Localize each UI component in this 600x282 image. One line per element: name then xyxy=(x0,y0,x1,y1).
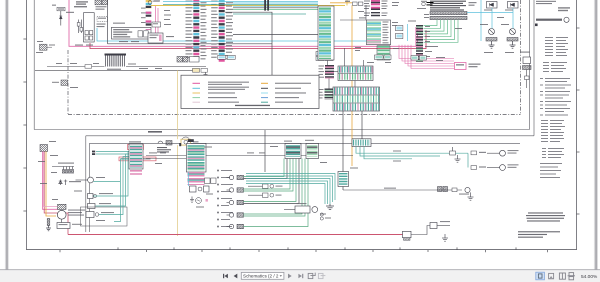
fan motor M2 xyxy=(76,177,121,183)
legend row: gauge circuit (light cyan) xyxy=(261,92,306,93)
wire: cyan interconnect at flashers xyxy=(467,0,513,41)
page left shadow edge xyxy=(5,0,9,270)
wire: teal feeds to lamps right xyxy=(356,147,468,159)
legend box xyxy=(181,75,319,108)
connector P2 (hatched) xyxy=(61,80,68,85)
ground G1 xyxy=(489,41,495,48)
connector strip CN-C (fuse column) xyxy=(146,0,152,30)
toolbar background xyxy=(0,270,600,282)
label: starter motor text xyxy=(68,210,85,216)
right margin: sheet reference text xyxy=(536,1,570,11)
in-line relay chain at right border xyxy=(520,52,531,89)
horn H2 (circle) xyxy=(510,29,516,35)
wire: green risers from lamp rows xyxy=(244,159,309,227)
label: relay cluster text xyxy=(74,1,94,15)
sheet frame bottom border with ticks xyxy=(27,247,577,252)
connector P4 (hatched) xyxy=(486,38,497,42)
wire: pink battery lead xyxy=(43,152,58,210)
relay K3 dashed label box xyxy=(97,17,107,22)
label: splice comb value xyxy=(107,69,121,71)
ground G5 (bundle ground) xyxy=(326,204,334,210)
sensor group under CN-B2 xyxy=(190,186,210,192)
circuit breaker CB1 xyxy=(248,184,283,188)
connector boxes CN-R1 xyxy=(375,55,392,60)
label: bus code xyxy=(384,188,396,189)
ground G2 xyxy=(510,41,516,48)
junction bank JB1 (striped) xyxy=(338,66,373,81)
legend row: air-con circuit (teal) xyxy=(261,102,303,103)
work lamp circuit 2: breaker + lamp xyxy=(471,164,519,170)
connector strip CN-H (panel side) xyxy=(318,6,334,60)
wire: teal feeds from border to CN-B1 xyxy=(96,152,129,155)
ground G6 xyxy=(455,155,461,162)
legend row: key switch circuit (cyan) xyxy=(193,87,250,90)
splice S2 on bus xyxy=(264,0,269,11)
switch SW2 small box xyxy=(152,22,161,27)
ground G4 xyxy=(190,197,194,203)
toolbar: next-page button xyxy=(288,274,292,279)
connector P5 (hatched) xyxy=(507,38,518,42)
wire: dark run under relay cluster xyxy=(108,43,273,45)
wire: pink stubs into strip xyxy=(415,27,417,46)
fuse row F2 on orange bus xyxy=(345,1,363,6)
wire: yellow riser at junction xyxy=(346,0,348,6)
label: red box long xyxy=(119,157,156,161)
svg-text:Schematics (2 / 2: Schematics (2 / 2 xyxy=(243,274,279,279)
legend row: lighting circuit (orange) xyxy=(261,83,311,84)
connector P3 (hatched pair at top) xyxy=(95,0,108,5)
legend row: charging circuit (green) xyxy=(193,97,238,98)
wire: orange accessory lead xyxy=(46,152,56,217)
splice comb SP1 xyxy=(105,54,207,67)
legend row: ground circuit (dark) xyxy=(261,88,301,89)
fuse F3 on teal feed xyxy=(450,147,456,155)
beacon circuit: connector + breaker + lamp xyxy=(438,187,471,195)
label: microtext lower mid xyxy=(149,140,358,219)
safety relay RY2 xyxy=(88,203,112,209)
junction bank JB2 (striped, large) xyxy=(333,87,380,111)
lamp unit L1 (pink box) xyxy=(455,63,481,70)
ECU connector grid CN-L xyxy=(430,1,477,20)
lamp row 2 with connector xyxy=(227,188,244,192)
connector strip CN-J1 xyxy=(364,0,388,10)
alternator box (yellow) xyxy=(179,137,198,146)
wire: pink sensor stub xyxy=(206,199,208,202)
starter relay box xyxy=(57,223,70,229)
fusible link FL3 xyxy=(403,231,412,240)
legend row: start aid circuit (blue) xyxy=(261,97,299,98)
wire: strip links xyxy=(328,61,339,95)
legend title: (A) CHASSIS HARNESS xyxy=(235,105,270,106)
wire: bus to splice comb xyxy=(47,66,105,68)
legend row: starting circuit (yellow) xyxy=(193,92,236,93)
starter motor M1 xyxy=(57,204,66,222)
connector P7 (hatched, battery feed) xyxy=(40,145,48,152)
label: instrument panel text rows xyxy=(113,29,132,38)
label: zener text xyxy=(69,181,81,182)
label: wire codes on teal feeds xyxy=(393,151,401,162)
wire: link JB1 to JB2 xyxy=(354,81,356,88)
toolbar: next-view icon (disabled) xyxy=(318,273,325,278)
toolbar: previous-page button xyxy=(234,274,238,279)
wire bus: cab-to-panel harness lines xyxy=(163,1,318,14)
connector strip CN-E with pin labels xyxy=(211,0,233,62)
circuit breaker CB2 xyxy=(248,193,282,197)
right margin: connector list rows xyxy=(542,148,564,158)
label: microtext around key-switch cluster xyxy=(52,5,139,46)
wire: vertical drop mid lower xyxy=(264,130,266,172)
right margin: notes bullet list xyxy=(540,78,571,116)
wire: yellow drop to lower section xyxy=(177,70,179,139)
label: alternator text block xyxy=(157,147,171,153)
wire: pink pair from fuse column xyxy=(156,5,159,33)
connector strip CN-D with pin labels xyxy=(186,0,207,62)
connector strip CN-J3 xyxy=(377,46,390,60)
right margin: component code table xyxy=(541,120,565,142)
connector strip CN-L2 xyxy=(420,25,431,62)
wire: pink fan to lamp unit xyxy=(399,45,454,69)
component label list (right of sensors) xyxy=(217,170,233,228)
wire: orange drop to banks xyxy=(351,5,353,166)
right margin: wire code table rows xyxy=(545,37,568,56)
toolbar right: continuous-page icon xyxy=(568,273,575,280)
label: microtext near strips J xyxy=(355,2,399,63)
sensor pair K (cyan cells) xyxy=(396,26,403,39)
sender unit with wave xyxy=(196,198,202,204)
instrument panel unit box U1 xyxy=(112,27,152,39)
resistor R1 xyxy=(85,65,92,69)
ignition switch circle xyxy=(148,0,160,4)
connector strip SJ2 xyxy=(318,89,329,101)
notes paragraph 2 (bottom right) xyxy=(518,231,560,238)
lamp row 4 with connector xyxy=(227,213,244,217)
ground symbol near splice xyxy=(204,72,208,77)
wire: vertical drop at key switch xyxy=(107,0,109,44)
revision circle marker top-right xyxy=(417,2,434,9)
svg-text:54.00%: 54.00% xyxy=(581,274,598,280)
wire: green harness fan from ECU xyxy=(424,20,459,43)
right margin: abbreviation rows xyxy=(543,62,567,72)
wire: yellow feed across top xyxy=(151,5,345,7)
wire: risers from strips to bank1 xyxy=(340,5,367,66)
wire: dark branch with vertical drop xyxy=(225,12,318,75)
notes paragraph 1 (bottom right) xyxy=(526,212,565,221)
glow plug row GP1-GP4 xyxy=(52,167,74,174)
relay K1 cluster small caps xyxy=(77,20,83,34)
wire: pink battery lead second xyxy=(43,152,57,207)
toolbar top border xyxy=(0,269,600,271)
connector block CN-B1 xyxy=(129,141,143,175)
lamp row 3 with connector xyxy=(227,200,244,204)
engine bus wires xyxy=(146,156,353,159)
connector strip CN-J2 xyxy=(364,12,388,17)
fuel gauge unit xyxy=(284,203,318,213)
wire: crimson feed run xyxy=(90,30,426,49)
dash-dot harness divider xyxy=(68,0,521,115)
lower section inner border xyxy=(90,143,521,232)
toolbar: first-page button xyxy=(223,274,228,278)
wire: engine long bus lower xyxy=(343,189,462,191)
relay box RY3 group xyxy=(81,207,128,226)
flasher unit FL2 (diode box) xyxy=(508,2,519,9)
wire: orange feed segment xyxy=(330,2,352,4)
label: section B title xyxy=(148,131,162,133)
label: microtext in left relay area xyxy=(36,41,162,88)
connector CN-D end boxes xyxy=(218,55,235,59)
wire: lower bus with fuse F0 xyxy=(35,69,193,71)
connector block CN-B3 xyxy=(285,144,301,159)
connector CN-H end caps xyxy=(316,52,333,61)
wire: step-up to isolator xyxy=(411,226,430,235)
safety relay RY1 xyxy=(88,193,114,199)
legend row: battery direct circuit (magenta) xyxy=(193,82,250,85)
connector stubs at border xyxy=(92,151,95,155)
zener diode pair Z1 xyxy=(59,180,67,186)
connector block CN-B2 xyxy=(186,139,206,185)
upper harness boundary box xyxy=(34,0,529,130)
label: red box pair xyxy=(128,145,144,150)
wire: teal bundle to cab grounds xyxy=(246,174,335,205)
toolbar right: snapshot icon xyxy=(549,273,554,278)
circled note markers xyxy=(320,213,323,220)
flasher unit FL1 (diode box) xyxy=(487,2,498,9)
wire: red battery lead xyxy=(44,152,68,235)
horn unit icons xyxy=(158,141,172,146)
label: microtext flasher column xyxy=(436,10,514,62)
fuse box FB1 xyxy=(148,33,163,43)
connector CN-B6 (hatched) xyxy=(338,172,349,187)
lamp row 1 with connector xyxy=(227,175,244,179)
diode D1 with stub xyxy=(57,7,65,25)
label: microtext near fuse column C xyxy=(141,1,174,38)
sheet frame right border with ticks xyxy=(577,0,580,250)
lamp row 5 with connector xyxy=(227,224,244,228)
outer harness boundary box 2 xyxy=(86,0,534,232)
toolbar right: hand-tool selected icon xyxy=(536,272,545,280)
legend row: unfinished circuit (light) xyxy=(193,102,240,103)
right margin: lower list rows xyxy=(540,163,562,178)
label: glow plug text xyxy=(58,163,74,164)
wire: drop from JB2 to engine bus xyxy=(343,111,362,190)
label: microtext near ECU grid left xyxy=(408,1,438,52)
toolbar right: single-page icon xyxy=(559,273,565,279)
connector strip SJ1 xyxy=(319,65,330,79)
pressure switch pair xyxy=(205,178,217,184)
connector CN-B5 (hatched, teal feed) xyxy=(352,139,371,147)
relay K2 box xyxy=(84,13,95,42)
wire: cyan riser at sensor pair xyxy=(407,24,409,41)
toolbar: last-page button xyxy=(298,274,303,278)
wire: cab harness pink boundary (left + bottom run) xyxy=(69,0,418,46)
fuse F0 body xyxy=(193,68,208,72)
wire: cyan sensor lead xyxy=(188,172,190,186)
sheet frame left border with ticks xyxy=(23,0,26,250)
control unit U2 with wire rows xyxy=(367,20,391,45)
title strip: WDC/001 code with revision circle xyxy=(535,17,569,26)
page right shadow edge xyxy=(594,0,599,270)
battery isolator box xyxy=(430,221,450,229)
battery ground G3 xyxy=(46,219,51,231)
label: microtext lower section left xyxy=(38,141,105,225)
toolbar: page field "Schematics (2 / 2" xyxy=(241,272,284,279)
connector boxes CN-R2 xyxy=(411,56,426,61)
connector P1 (ground stud, hatched) xyxy=(40,44,53,50)
ground G8 xyxy=(442,234,448,241)
toolbar: previous-view icon xyxy=(308,273,315,279)
wire: battery positive long red run xyxy=(68,234,403,236)
wire: cyan run along top section xyxy=(97,28,370,41)
horn H1 (circle) xyxy=(489,29,495,35)
ground G7 xyxy=(468,192,474,200)
work lamp circuit 1: breaker + lamp xyxy=(468,150,519,168)
wire: teal returns to relay rows xyxy=(94,152,130,222)
connector block CN-B4 xyxy=(306,144,319,159)
connector P6 (hatched pair above legend) xyxy=(177,57,199,63)
